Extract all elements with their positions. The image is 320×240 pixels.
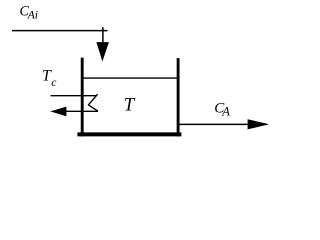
label C_A [214, 100, 230, 118]
cooling water outlet line [64, 110, 98, 112]
svg-text:T: T [124, 95, 136, 116]
liquid surface line [83, 77, 178, 79]
product outlet line [179, 123, 249, 125]
svg-text:c: c [51, 76, 57, 89]
svg-text:A: A [221, 105, 230, 119]
feed inlet line [12, 30, 108, 32]
cooling outlet arrowhead [50, 107, 66, 117]
tank bottom wall [77, 132, 181, 136]
label C_Ai [20, 3, 39, 21]
product arrowhead [248, 119, 270, 129]
svg-text:Ai: Ai [27, 8, 38, 22]
tank left wall [81, 58, 84, 137]
cooling water inlet line [51, 95, 97, 97]
feed drop stub [102, 27, 104, 43]
feed arrowhead [96, 42, 109, 61]
label T_c [42, 68, 57, 90]
tank right wall [177, 58, 180, 136]
cooling coil zigzag [88, 94, 98, 111]
